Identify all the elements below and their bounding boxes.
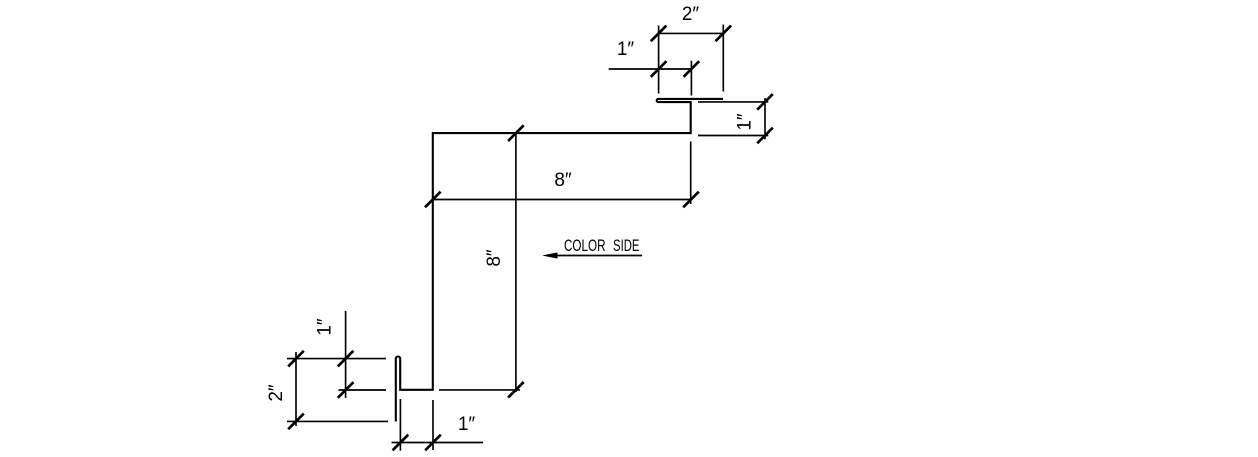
svg-text:8″: 8″ bbox=[554, 170, 572, 191]
svg-text:SIDE: SIDE bbox=[613, 237, 640, 255]
svg-text:COLOR: COLOR bbox=[564, 237, 606, 255]
svg-text:1″: 1″ bbox=[458, 414, 476, 435]
svg-text:2″: 2″ bbox=[266, 384, 287, 402]
svg-text:1″: 1″ bbox=[735, 113, 756, 131]
svg-text:2″: 2″ bbox=[682, 4, 700, 25]
svg-text:1″: 1″ bbox=[315, 318, 336, 336]
svg-text:8″: 8″ bbox=[484, 249, 505, 267]
svg-text:1″: 1″ bbox=[617, 39, 635, 60]
